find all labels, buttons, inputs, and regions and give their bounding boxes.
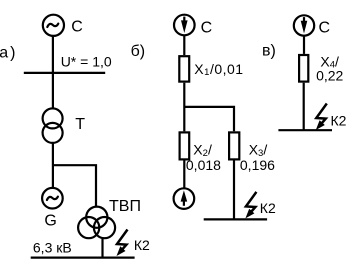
svg-text:G: G	[44, 213, 56, 230]
svg-text:0,22: 0,22	[316, 67, 343, 83]
svg-text:К2: К2	[331, 112, 347, 128]
svg-text:в): в)	[262, 43, 276, 60]
svg-text:а): а)	[0, 45, 17, 62]
svg-text:С: С	[201, 20, 213, 37]
svg-text:б): б)	[131, 43, 146, 60]
svg-text:ТВП: ТВП	[109, 198, 141, 215]
svg-text:С: С	[71, 19, 83, 36]
svg-text:К2: К2	[134, 237, 150, 253]
svg-text:0,196: 0,196	[240, 157, 275, 173]
svg-text:6,3 кВ: 6,3 кВ	[33, 239, 72, 255]
svg-text:К2: К2	[260, 200, 276, 216]
svg-text:X1/0,01: X1/0,01	[194, 61, 243, 78]
svg-text:0,018: 0,018	[186, 157, 221, 173]
svg-text:Т: Т	[75, 116, 85, 133]
svg-text:С: С	[319, 19, 331, 36]
svg-text:U* = 1,0: U* = 1,0	[61, 53, 112, 69]
